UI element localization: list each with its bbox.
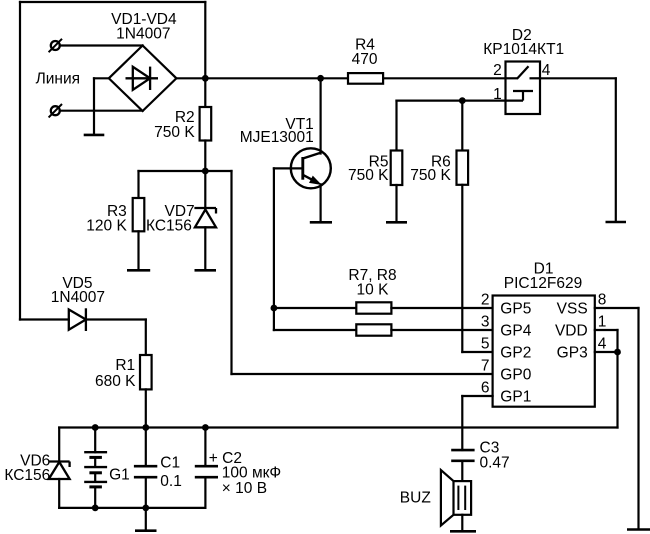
svg-text:2: 2 <box>493 62 502 79</box>
wire: VD5 anode from frame <box>20 318 69 320</box>
wire: VT1 base <box>274 167 302 169</box>
node: junction dot R2/R3/VD7 <box>202 168 209 175</box>
resistor R7 <box>356 302 391 313</box>
svg-text:PIC12F629: PIC12F629 <box>504 275 582 292</box>
wire: VD7 drop from node <box>204 171 206 209</box>
terminal X2 (line input bottom) <box>49 104 62 117</box>
wire: R6 drop <box>461 101 463 151</box>
wire: X2 to bridge bottom vertex <box>60 110 143 112</box>
svg-text:750 K: 750 K <box>410 167 451 184</box>
svg-text:3: 3 <box>481 314 490 331</box>
wire: ground drop at x=94 <box>93 78 95 134</box>
svg-text:4: 4 <box>598 336 607 353</box>
wire: frame top (20,2)-(205.3,2) <box>20 1 205 3</box>
svg-text:G1: G1 <box>109 467 130 484</box>
wire: VD5 cathode to R1 column <box>86 318 146 320</box>
svg-text:470: 470 <box>352 51 378 68</box>
wire: C1 top lead <box>145 428 147 467</box>
svg-text:5: 5 <box>481 336 490 353</box>
wire: VT1 emitter to ground <box>320 184 322 221</box>
svg-text:750 K: 750 K <box>154 124 195 141</box>
ground (VT1 emitter) <box>310 221 332 224</box>
wire: R6 bottom down to GP2 <box>461 185 463 352</box>
wire: R8 left lead <box>274 329 356 331</box>
node: junction dot C2 top <box>202 424 209 431</box>
wire: C1 bottom lead <box>145 477 147 508</box>
IC D1 PIC12F629 <box>493 296 595 407</box>
wire: positive rail y=427.5 <box>59 426 617 428</box>
svg-text:GP0: GP0 <box>500 367 531 384</box>
wire: VDD column down to rail <box>616 330 618 428</box>
wire: R8 right lead to GP4 <box>391 329 492 331</box>
wire: VSS pin 8 out <box>595 307 639 309</box>
optocoupler/switch D2 КР1014КТ1 <box>506 62 541 115</box>
svg-text:GP4: GP4 <box>500 323 531 340</box>
node: junction dot GP3/VDD <box>614 349 621 356</box>
wire: GP1 down to C3 <box>461 396 463 450</box>
resistor R6 <box>457 151 469 185</box>
ground (D2 output) <box>606 221 627 224</box>
svg-text:1: 1 <box>598 314 607 331</box>
wire: R3 to ground <box>137 231 139 269</box>
zener diode VD6 <box>49 462 70 480</box>
wire: frame left vertical (20,2)-(20,319.5) <box>19 2 21 320</box>
wire: R2 bottom to node <box>204 141 206 172</box>
wire: bridge left vertex to ground column <box>94 77 109 79</box>
wire: G1 top lead <box>94 428 96 453</box>
svg-text:КР1014КТ1: КР1014КТ1 <box>483 41 564 58</box>
svg-text:8: 8 <box>598 292 607 309</box>
buzzer BUZ <box>441 470 471 526</box>
svg-text:GP3: GP3 <box>557 345 588 362</box>
wire: X1 to bridge top vertex <box>60 44 143 46</box>
wire: bottom rail y=507.9 <box>59 507 205 509</box>
ground (BUZ) <box>450 530 476 533</box>
wire: base column down to R7/R8 <box>273 168 275 330</box>
svg-text:КС156: КС156 <box>4 467 50 484</box>
wire: R7 left lead <box>274 307 356 309</box>
wire: VD7 to ground <box>204 227 206 269</box>
ground (VSS) <box>627 528 650 531</box>
resistor R1 <box>140 355 152 389</box>
node: junction dot R1/C1 <box>142 424 149 431</box>
wire: D2 output down to ground <box>615 78 617 221</box>
svg-text:VDD: VDD <box>555 323 588 340</box>
node: junction dot C1 bottom <box>142 505 149 512</box>
svg-text:GP2: GP2 <box>500 345 531 362</box>
svg-text:7: 7 <box>481 358 490 375</box>
resistor R4 <box>348 73 383 84</box>
wire: node row y=171 <box>139 170 232 172</box>
svg-text:КС156: КС156 <box>146 218 192 235</box>
wire: G1 bottom lead <box>94 487 96 508</box>
svg-text:C1: C1 <box>160 455 180 472</box>
node: junction dot G1 bottom <box>92 505 99 512</box>
capacitor C2 (electrolytic) <box>195 466 218 477</box>
node: junction dot at VT1 collector <box>317 75 324 82</box>
wire: GP3 pin 4 out <box>595 351 618 353</box>
ground (R3) <box>127 269 150 272</box>
svg-text:1N4007: 1N4007 <box>51 289 105 306</box>
wire: GP0 net vertical x=231.5 <box>230 171 232 374</box>
svg-text:MJE13001: MJE13001 <box>240 129 314 146</box>
wire: main rail bridge to R4 <box>176 77 348 79</box>
resistor R5 <box>391 151 403 186</box>
wire: top-right drop (205.3,2)-(205.3,78.3) <box>204 2 206 78</box>
wire: VD6 top lead <box>58 428 60 462</box>
wire: C3 to BUZ <box>461 461 463 481</box>
wire: R7 right lead to GP5 <box>391 307 492 309</box>
svg-text:0.47: 0.47 <box>480 454 510 471</box>
wire: D2 pin 1 control line to R5 <box>397 99 506 101</box>
svg-text:Линия: Линия <box>36 70 80 87</box>
capacitor C3 <box>451 450 474 461</box>
wire: D2 pin 4 output <box>540 77 616 79</box>
svg-text:R1: R1 <box>115 357 135 374</box>
svg-text:10 K: 10 K <box>357 282 390 299</box>
svg-text:VSS: VSS <box>557 301 588 318</box>
terminal X1 (line input top) <box>49 39 62 52</box>
svg-text:BUZ: BUZ <box>400 490 431 507</box>
wire: R5 to ground <box>395 185 397 221</box>
node: junction dot R6 top <box>459 97 466 104</box>
ground (VD7) <box>195 269 217 272</box>
wire: VD6 bottom lead <box>58 479 60 508</box>
node: junction dot at R2 column <box>202 75 209 82</box>
node: junction dot base/R7 <box>271 305 278 312</box>
wire: R2 top lead <box>204 78 206 107</box>
svg-text:4: 4 <box>542 62 551 79</box>
wire: R5 drop <box>395 101 397 151</box>
wire: VT1 collector from main rail <box>320 78 322 153</box>
zener diode VD7 <box>194 208 216 227</box>
wire: R1 bottom to rail <box>145 389 147 427</box>
svg-text:1N4007: 1N4007 <box>116 25 170 42</box>
wire: R3 drop <box>137 171 139 198</box>
wire: VSS down right edge <box>637 308 639 529</box>
ground (bridge minus) <box>84 134 105 137</box>
wire: bottom rail to ground <box>145 508 147 530</box>
bridge rectifier VD1-VD4 <box>109 46 177 112</box>
wire: GP2 horizontal <box>462 351 492 353</box>
wire: C2 bottom lead <box>204 477 206 508</box>
ground (R5) <box>386 221 407 224</box>
ground (battery minus) <box>135 529 157 532</box>
svg-text:750 K: 750 K <box>348 167 389 184</box>
diode VD5 <box>69 308 86 331</box>
wire: R1 top lead <box>145 320 147 356</box>
svg-text:680 K: 680 K <box>95 373 136 390</box>
svg-text:2: 2 <box>481 292 490 309</box>
resistor R2 <box>200 107 212 141</box>
svg-text:× 10 В: × 10 В <box>222 480 267 497</box>
svg-text:120 K: 120 K <box>86 218 127 235</box>
wire: BUZ to ground <box>461 515 463 531</box>
wire: C2 top lead <box>204 428 206 467</box>
wire: GP1 pin 6 out <box>462 395 492 397</box>
wire: R4 to D2 pin 2 <box>383 77 505 79</box>
capacitor C1 <box>134 466 157 477</box>
resistor R8 <box>356 324 391 335</box>
node: junction dot G1 top <box>92 424 99 431</box>
svg-text:GP5: GP5 <box>500 301 531 318</box>
wire: GP0 net horizontal to D1 pin 7 <box>232 373 493 375</box>
transistor VT1 <box>291 148 331 188</box>
svg-text:6: 6 <box>481 380 490 397</box>
resistor R3 <box>133 198 145 231</box>
wire: VDD pin 1 out <box>595 329 618 331</box>
svg-text:0.1: 0.1 <box>160 473 182 490</box>
battery G1 <box>84 452 107 487</box>
svg-text:GP1: GP1 <box>500 389 531 406</box>
